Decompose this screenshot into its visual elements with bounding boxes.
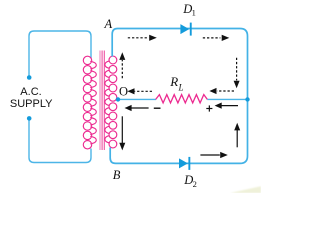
svg-text:B: B bbox=[113, 168, 121, 182]
current arrow (dashed) into node O, pointing left bbox=[127, 88, 152, 94]
svg-text:A: A bbox=[104, 17, 113, 31]
polarity label plus bbox=[206, 105, 212, 111]
current arrow (solid) below resistor left end, pointing left bbox=[125, 105, 149, 111]
current arrow (solid) on right rail bottom, pointing up bbox=[234, 123, 240, 148]
background tint wedge (scan artifact) bbox=[230, 186, 261, 193]
terminal dot: A.C. supply lower bbox=[27, 116, 32, 121]
wire: primary loop bottom (from lower A.C. terminal down, right to primary coil bottom) bbox=[29, 118, 91, 162]
wire: load resistor to right rail bbox=[207, 98, 247, 100]
wire: secondary top lead + outer loop (top wire, right wire, bottom wire) bbox=[110, 29, 247, 164]
polarity label minus bbox=[154, 107, 161, 109]
transformer primary winding P bbox=[83, 56, 96, 149]
wire: center tap to load resistor bbox=[118, 98, 156, 100]
terminal dot: A.C. supply upper bbox=[27, 75, 32, 80]
current arrow (dashed) on right rail, pointing down bbox=[234, 58, 240, 89]
current arrow (solid) on bottom wire right of D2, pointing right bbox=[200, 152, 227, 158]
current arrow (dashed) above resistor right end, pointing left bbox=[209, 88, 234, 94]
current arrow (solid) below resistor right end, pointing left bbox=[215, 103, 238, 109]
junction dot: right rail bbox=[245, 97, 249, 101]
current arrow (solid) beside node B, pointing down bbox=[119, 116, 125, 150]
wire: primary loop top (from primary coil top, left and down to A.C. terminal) bbox=[29, 31, 91, 78]
transformer core (three lamination lines) bbox=[100, 51, 104, 151]
svg-text:L: L bbox=[178, 83, 184, 93]
svg-text:O: O bbox=[119, 85, 128, 99]
current arrow (dashed) beside node A, pointing up bbox=[119, 52, 125, 78]
svg-text:SUPPLY: SUPPLY bbox=[10, 98, 53, 110]
resistor RL (load) bbox=[156, 95, 208, 103]
svg-text:2: 2 bbox=[193, 179, 197, 189]
diode D2 bbox=[179, 157, 190, 170]
current arrow (dashed) on top wire, right of D1, pointing right bbox=[203, 35, 230, 41]
current arrow (dashed) on top wire, left of D1, pointing right bbox=[128, 35, 157, 41]
svg-text:R: R bbox=[169, 74, 178, 89]
diode D1 bbox=[180, 23, 191, 36]
svg-text:A.C.: A.C. bbox=[20, 86, 41, 98]
junction dot: center tap O bbox=[116, 97, 120, 101]
svg-text:1: 1 bbox=[192, 8, 196, 18]
transformer secondary winding S bbox=[105, 56, 117, 148]
